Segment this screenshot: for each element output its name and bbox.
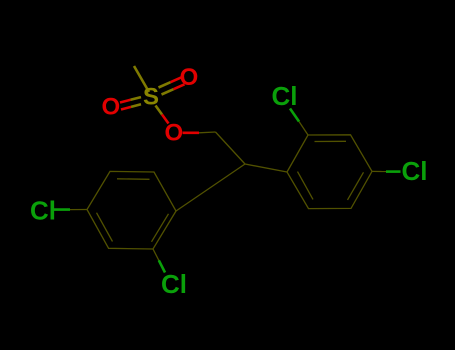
wire CH2 half — [199, 131, 216, 134]
benzene ring left (2,4-dichlorophenyl) — [87, 171, 176, 249]
svg-text:O: O — [180, 64, 199, 91]
O-CH2 bond — [183, 132, 200, 135]
Cl bond top-right (Cl half) — [290, 109, 299, 122]
S=O double bond right — [159, 77, 185, 94]
Cl bond right (Cl half) — [386, 170, 401, 173]
Cl bond bottom (Cl half) — [159, 260, 165, 272]
CH to left ring bond — [176, 164, 245, 211]
S-O ester bond — [156, 106, 169, 124]
Cl bond left (Cl half) — [54, 208, 71, 211]
svg-text:Cl: Cl — [402, 156, 428, 186]
svg-text:O: O — [101, 94, 120, 121]
svg-text:Cl: Cl — [272, 81, 298, 111]
Cl bond bottom (ring half) — [153, 249, 159, 260]
benzene ring right (2,4-dichlorophenyl) — [287, 135, 372, 209]
CH to right ring bond — [245, 164, 287, 172]
S=O double bond left — [120, 97, 141, 109]
Cl bond top-right (ring half) — [299, 122, 308, 136]
methyl C-S bond — [134, 66, 149, 92]
svg-text:O: O — [164, 120, 183, 147]
CH2-CH bond — [216, 132, 246, 164]
svg-text:Cl: Cl — [161, 269, 187, 299]
svg-text:Cl: Cl — [30, 196, 56, 226]
Cl bond left (ring half) — [70, 209, 87, 211]
Cl bond right (ring half) — [372, 170, 386, 172]
